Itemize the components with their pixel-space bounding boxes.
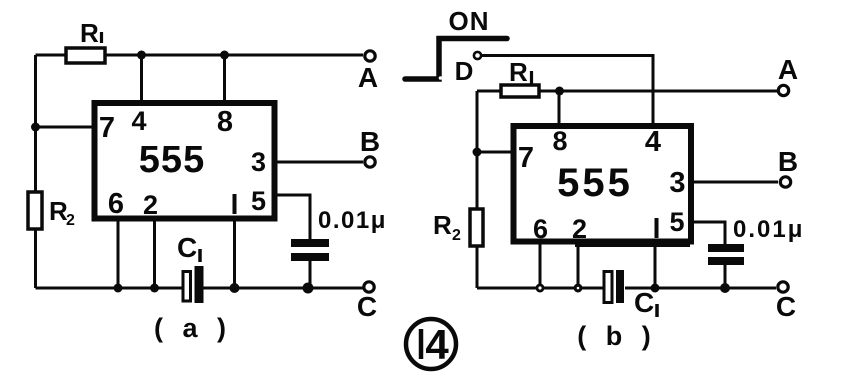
svg-text:0.01μ: 0.01μ — [318, 207, 387, 234]
svg-text:R: R — [80, 18, 99, 48]
svg-text:C: C — [634, 287, 654, 318]
svg-text:D: D — [455, 56, 474, 86]
svg-text:6: 6 — [108, 188, 124, 220]
svg-text:A: A — [358, 62, 378, 93]
svg-text:3: 3 — [251, 147, 266, 177]
svg-text:4: 4 — [131, 106, 146, 136]
svg-text:C: C — [776, 291, 796, 322]
svg-text:555: 555 — [557, 161, 633, 205]
svg-text:7: 7 — [518, 142, 534, 174]
svg-text:7: 7 — [99, 112, 115, 144]
svg-text:ON: ON — [449, 6, 490, 36]
svg-text:3: 3 — [669, 167, 685, 199]
svg-text:A: A — [778, 54, 798, 85]
svg-text:5: 5 — [669, 207, 684, 237]
svg-text:R: R — [433, 210, 452, 240]
svg-text:0.01μ: 0.01μ — [733, 216, 804, 243]
svg-text:B: B — [360, 126, 380, 157]
svg-text:R: R — [509, 57, 528, 87]
svg-text:4: 4 — [425, 321, 449, 368]
svg-text:6: 6 — [533, 214, 548, 244]
svg-text:C: C — [177, 232, 197, 263]
svg-text:( a ): ( a ) — [154, 313, 232, 343]
svg-text:( b ): ( b ) — [577, 321, 656, 351]
svg-text:2: 2 — [143, 190, 158, 220]
svg-text:5: 5 — [251, 186, 266, 216]
svg-text:2: 2 — [452, 227, 461, 244]
svg-text:4: 4 — [645, 126, 661, 158]
svg-text:8: 8 — [217, 106, 233, 138]
svg-text:B: B — [778, 146, 798, 177]
svg-text:2: 2 — [66, 212, 75, 229]
svg-text:2: 2 — [572, 214, 587, 244]
svg-text:555: 555 — [139, 139, 205, 181]
svg-text:C: C — [357, 291, 377, 322]
svg-text:8: 8 — [552, 126, 567, 156]
